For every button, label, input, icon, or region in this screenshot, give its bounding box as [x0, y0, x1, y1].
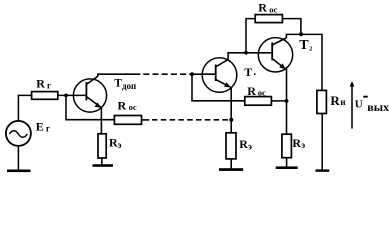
label Rос (top) [258, 1, 277, 15]
ground (under Eг) [7, 170, 31, 173]
label Rг [36, 76, 51, 90]
svg-text:г: г [47, 80, 51, 90]
wire Rос3 right down to collector node T2 [282, 19, 301, 35]
resistor Rос (first stage feedback) [114, 116, 141, 125]
resistor Rэ (second stage) [226, 133, 236, 159]
wire dashed to emitter of T1 [152, 119, 230, 121]
resistor Rос (output stage feedback, top) [255, 15, 282, 23]
svg-text:ос: ос [269, 5, 277, 15]
label Rос (middle) [247, 84, 266, 98]
svg-text:э: э [248, 141, 252, 151]
svg-text:э: э [118, 140, 122, 150]
wire Rэ3 to ground [286, 158, 288, 167]
svg-text:доп: доп [122, 81, 136, 91]
svg-text:U: U [355, 99, 363, 111]
wire collector T2 up, right and down to Rн [286, 34, 322, 90]
wire dashed to base of T1 [143, 73, 189, 75]
wire emitter T2 down to Rэ3 [286, 69, 288, 135]
node collector T1 / Rос3 tap [244, 51, 248, 55]
label Rос (first stage) [118, 99, 137, 113]
svg-text:э: э [301, 140, 305, 150]
svg-text:R: R [330, 93, 340, 108]
wire Rэ2 to ground [230, 159, 232, 169]
svg-text:г: г [46, 124, 50, 134]
label T2 [299, 38, 312, 53]
wire collector Tдоп up and right [98, 74, 141, 76]
svg-text:вых: вых [367, 100, 389, 114]
wire Rг to base of Tдоп [58, 94, 87, 96]
node emitter T2 / Rос2 [285, 99, 289, 103]
transistor T1 [202, 58, 237, 93]
svg-text:2: 2 [309, 47, 312, 53]
wire Rэ to ground [101, 158, 103, 165]
arrow Uвых [350, 81, 355, 129]
node collector T2 [299, 32, 303, 36]
label T1 [244, 65, 255, 79]
node emitter T1 [229, 118, 233, 122]
svg-text:R: R [36, 76, 45, 90]
wire from Eг bottom to ground [17, 146, 19, 170]
wire Rн to ground [321, 114, 323, 170]
label Tдоп [114, 78, 136, 91]
resistor Rг [32, 92, 58, 100]
resistor Rэ (output stage) [282, 134, 292, 158]
wire feedback from base node down to Rос [66, 95, 114, 119]
resistor Rос (second stage, middle) [245, 97, 272, 106]
svg-text:R: R [292, 136, 301, 150]
transistor Tдоп [73, 76, 106, 112]
wire Rос2 right lead [271, 100, 286, 102]
label Rэ (second stage) [239, 137, 252, 152]
svg-text:R: R [239, 137, 248, 151]
wire from base node T1 down and right to Rос2 [192, 74, 245, 101]
resistor Rн (load) [317, 90, 327, 113]
label Eг [36, 119, 50, 133]
wire into base of T1 [189, 73, 216, 75]
label Rн [330, 93, 345, 108]
wire emitter T1 down to Rэ2 [230, 87, 232, 132]
svg-text:Т: Т [244, 65, 252, 79]
node at base of Tдоп [64, 94, 68, 98]
ground (output stage) [276, 166, 298, 169]
svg-text:ос: ос [129, 102, 137, 112]
resistor Rэ (first stage) [98, 134, 106, 158]
svg-text:Т: Т [299, 38, 309, 53]
wire emitter Tдоп down to Rэ [100, 108, 102, 134]
label Uвых [355, 96, 389, 114]
svg-text:н: н [340, 97, 345, 107]
svg-text:R: R [118, 99, 127, 113]
label Rэ (output stage) [292, 136, 305, 150]
generator Eг (AC source) [6, 121, 31, 146]
ground (under Rн) [316, 169, 330, 171]
wire up from node to Rос3 [246, 19, 255, 53]
svg-text:R: R [247, 84, 256, 98]
transistor T2 [258, 38, 292, 72]
ground (first stage) [93, 164, 114, 167]
svg-text:Е: Е [36, 119, 44, 133]
wire collector T1 to base T2 [228, 53, 272, 60]
node base T1 [190, 72, 194, 76]
svg-text:R: R [258, 1, 267, 15]
ground (second stage) [219, 168, 243, 171]
label Rэ (first stage) [109, 135, 122, 150]
wire from Rос right [142, 119, 150, 121]
wire from Eг top to Rг [18, 95, 31, 121]
svg-text:ос: ос [258, 88, 266, 98]
